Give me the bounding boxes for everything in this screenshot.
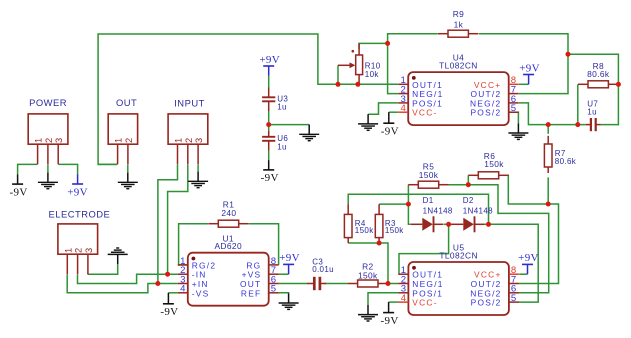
svg-text:3: 3 <box>84 248 94 253</box>
svg-text:1N4148: 1N4148 <box>423 206 453 215</box>
svg-text:0.01u: 0.01u <box>312 265 334 274</box>
svg-text:OUT: OUT <box>116 97 137 108</box>
svg-text:-9V: -9V <box>261 172 279 184</box>
svg-text:3: 3 <box>194 138 204 143</box>
svg-text:REF: REF <box>241 288 262 298</box>
svg-text:R10: R10 <box>365 61 381 70</box>
svg-text:2: 2 <box>124 138 134 143</box>
svg-text:+9V: +9V <box>67 186 88 198</box>
svg-text:D2: D2 <box>463 196 474 205</box>
svg-text:5: 5 <box>271 284 277 295</box>
svg-text:150k: 150k <box>385 226 404 235</box>
svg-text:2: 2 <box>184 138 194 143</box>
svg-text:+9V: +9V <box>279 252 300 264</box>
svg-text:5: 5 <box>511 293 517 304</box>
svg-text:D1: D1 <box>423 196 434 205</box>
svg-text:1k: 1k <box>454 19 464 29</box>
svg-text:2: 2 <box>44 138 54 143</box>
svg-text:VCC-: VCC- <box>412 108 437 118</box>
svg-text:150k: 150k <box>358 270 378 280</box>
svg-text:1: 1 <box>63 248 73 253</box>
svg-text:1u: 1u <box>277 142 287 151</box>
svg-text:240: 240 <box>221 208 236 218</box>
svg-text:1: 1 <box>174 138 184 143</box>
svg-text:1u: 1u <box>587 107 597 116</box>
svg-text:150k: 150k <box>419 170 439 180</box>
svg-text:150k: 150k <box>355 226 374 235</box>
svg-text:AD620: AD620 <box>214 241 242 251</box>
svg-text:ELECTRODE: ELECTRODE <box>48 209 110 220</box>
svg-text:3: 3 <box>54 138 64 143</box>
svg-text:5: 5 <box>511 103 517 114</box>
svg-text:+9V: +9V <box>259 54 280 66</box>
svg-text:INPUT: INPUT <box>174 97 205 108</box>
svg-text:POWER: POWER <box>29 97 67 108</box>
svg-text:1: 1 <box>114 138 124 143</box>
svg-text:TL082CN: TL082CN <box>439 61 478 71</box>
svg-text:150k: 150k <box>484 159 504 169</box>
svg-text:1u: 1u <box>277 103 287 112</box>
svg-text:+9V: +9V <box>518 252 539 264</box>
svg-text:VCC-: VCC- <box>412 298 437 308</box>
svg-text:1: 1 <box>34 138 44 143</box>
svg-text:10k: 10k <box>365 70 380 79</box>
svg-text:-VS: -VS <box>192 288 210 298</box>
svg-text:+9V: +9V <box>519 62 540 74</box>
svg-text:80.6k: 80.6k <box>555 157 577 166</box>
svg-text:2: 2 <box>74 248 84 253</box>
svg-text:4: 4 <box>401 103 407 114</box>
svg-text:-9V: -9V <box>381 315 399 327</box>
svg-text:4: 4 <box>401 293 407 304</box>
svg-text:TL082CN: TL082CN <box>439 250 478 260</box>
svg-text:1N4148: 1N4148 <box>463 206 493 215</box>
svg-text:POS/2: POS/2 <box>471 298 502 308</box>
svg-text:R9: R9 <box>453 9 464 19</box>
svg-text:POS/2: POS/2 <box>470 108 501 118</box>
svg-text:80.6k: 80.6k <box>587 69 610 79</box>
svg-text:-9V: -9V <box>381 126 399 138</box>
svg-text:-9V: -9V <box>10 186 28 198</box>
svg-text:-9V: -9V <box>160 306 178 318</box>
svg-text:4: 4 <box>180 284 186 295</box>
